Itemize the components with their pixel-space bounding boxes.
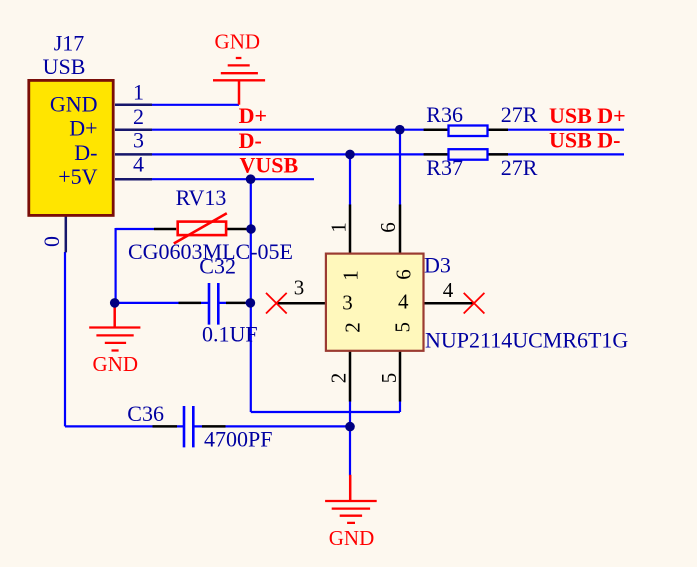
wire D- to pin1: [349, 154, 351, 205]
ic D3 pin leads: [276, 205, 474, 402]
power GND bottom label: [329, 526, 375, 550]
svg-text:GND: GND: [93, 352, 139, 376]
wire VUSB to pin5 horizontal: [251, 411, 400, 413]
power GND bottom symbol: [325, 475, 377, 523]
designator J17: [54, 31, 85, 56]
junction D+ pin6: [395, 125, 405, 135]
power GND left symbol: [89, 303, 140, 351]
svg-text:C36: C36: [127, 401, 164, 426]
svg-text:D-: D-: [74, 140, 97, 165]
value NUP2114UCMR6T1G: [425, 327, 628, 352]
svg-text:27R: 27R: [501, 102, 538, 127]
pin name 5 inside rotated: [391, 322, 415, 333]
pin name D-: [74, 140, 97, 165]
svg-text:J17: J17: [54, 31, 85, 56]
value 27R top: [501, 102, 538, 127]
wire net D+: [152, 129, 624, 131]
svg-text:USB: USB: [43, 54, 86, 79]
power GND top symbol: [213, 58, 265, 105]
svg-text:GND: GND: [50, 92, 98, 117]
varistor RV13: [154, 213, 251, 243]
designator D3: [424, 253, 451, 278]
svg-text:3: 3: [342, 291, 353, 315]
junction RV13 right: [246, 224, 256, 234]
value 27R bottom: [501, 155, 538, 180]
svg-text:D-: D-: [239, 128, 262, 153]
svg-text:D3: D3: [424, 253, 451, 278]
no-connect X pin 4: [464, 293, 485, 314]
net label VUSB: [240, 153, 299, 178]
pin number 4 outside: [443, 278, 454, 302]
pin name GND: [50, 92, 98, 117]
resistor R36: [424, 126, 508, 137]
designator C36: [127, 401, 164, 426]
svg-text:1: 1: [133, 80, 144, 105]
pin name 6 inside rotated: [392, 269, 416, 280]
junction VUSB pin4: [246, 174, 256, 184]
svg-text:5: 5: [377, 373, 401, 384]
pin number 2: [133, 104, 144, 129]
svg-text:1: 1: [339, 270, 363, 281]
designator R37: [426, 155, 463, 180]
svg-text:2: 2: [133, 104, 144, 129]
svg-text:3: 3: [294, 276, 305, 300]
svg-text:GND: GND: [215, 30, 261, 54]
designator C32: [199, 254, 236, 279]
wire RV13 left: [116, 228, 154, 303]
wire C32 net: [115, 302, 251, 304]
svg-text:+5V: +5V: [58, 164, 97, 189]
svg-text:USB D+: USB D+: [549, 103, 626, 128]
no-connect X pin 3: [266, 293, 287, 314]
svg-text:4700PF: 4700PF: [204, 427, 272, 452]
pin name +5V: [58, 164, 97, 189]
pin number 2 outside rotated: [327, 373, 351, 384]
junction C32 left GND: [110, 298, 120, 308]
wire VUSB vertical: [250, 179, 252, 412]
svg-text:RV13: RV13: [176, 185, 227, 210]
wire net VUSB horizontal: [152, 178, 314, 180]
svg-text:D+: D+: [239, 103, 267, 128]
svg-text:6: 6: [392, 269, 416, 280]
designator R36: [426, 102, 463, 127]
capacitor C32: [179, 283, 246, 325]
pin number 6 outside rotated: [376, 222, 400, 233]
svg-text:VUSB: VUSB: [240, 153, 299, 178]
svg-text:R37: R37: [426, 155, 463, 180]
power GND left label: [93, 352, 139, 376]
svg-text:2: 2: [341, 322, 365, 333]
net label USB D-: [549, 128, 621, 153]
svg-text:0.1UF: 0.1UF: [202, 322, 258, 347]
connector J17 body: [29, 80, 113, 215]
pin name 1 inside rotated: [339, 270, 363, 281]
wire pin5 bottom: [399, 401, 401, 412]
wire pin2 bottom: [349, 401, 351, 427]
pin name 4 inside: [398, 290, 409, 314]
pin number 4: [133, 152, 144, 177]
junction C32 right: [246, 298, 256, 308]
pin name 3 inside: [342, 291, 353, 315]
connector J17 pin stubs: [66, 105, 152, 253]
ic D3 body: [326, 254, 424, 351]
value 4700PF: [204, 427, 272, 452]
svg-text:1: 1: [327, 222, 351, 233]
pin number 0 rotated: [39, 236, 64, 247]
comment USB: [43, 54, 86, 79]
svg-text:USB D-: USB D-: [549, 128, 621, 153]
svg-text:4: 4: [133, 152, 144, 177]
net label USB D+: [549, 103, 626, 128]
capacitor C36: [153, 406, 226, 447]
pin number 5 outside rotated: [377, 373, 401, 384]
pin number 3 outside: [294, 276, 305, 300]
wire junction to bottom GND: [349, 427, 351, 476]
svg-text:D+: D+: [69, 115, 97, 140]
svg-text:3: 3: [133, 128, 144, 153]
junction D- pin1: [345, 150, 355, 160]
net label D+: [239, 103, 267, 128]
svg-text:0: 0: [39, 236, 64, 247]
pin name 2 inside rotated: [341, 322, 365, 333]
pin name D+: [69, 115, 97, 140]
designator RV13: [176, 185, 227, 210]
svg-text:27R: 27R: [501, 155, 538, 180]
svg-text:C32: C32: [199, 254, 236, 279]
svg-text:GND: GND: [329, 526, 375, 550]
wire net D-: [152, 153, 624, 155]
wire pin1 to GND: [152, 104, 239, 106]
junction bottom GND: [345, 422, 355, 432]
value 0.1UF: [202, 322, 258, 347]
value CG0603MLC-05E: [128, 239, 293, 264]
resistor R37: [424, 149, 508, 160]
net label D-: [239, 128, 262, 153]
svg-text:4: 4: [398, 290, 409, 314]
power GND top label: [215, 30, 261, 54]
svg-text:NUP2114UCMR6T1G: NUP2114UCMR6T1G: [425, 327, 628, 352]
svg-text:R36: R36: [426, 102, 463, 127]
svg-text:6: 6: [376, 222, 400, 233]
wire C36 net from USB pin0: [65, 252, 350, 426]
svg-text:5: 5: [391, 322, 415, 333]
pin number 1 outside rotated: [327, 222, 351, 233]
pin number 1: [133, 80, 144, 105]
pin number 3: [133, 128, 144, 153]
svg-text:2: 2: [327, 373, 351, 384]
svg-text:4: 4: [443, 278, 454, 302]
wire D+ to pin6: [399, 130, 401, 205]
